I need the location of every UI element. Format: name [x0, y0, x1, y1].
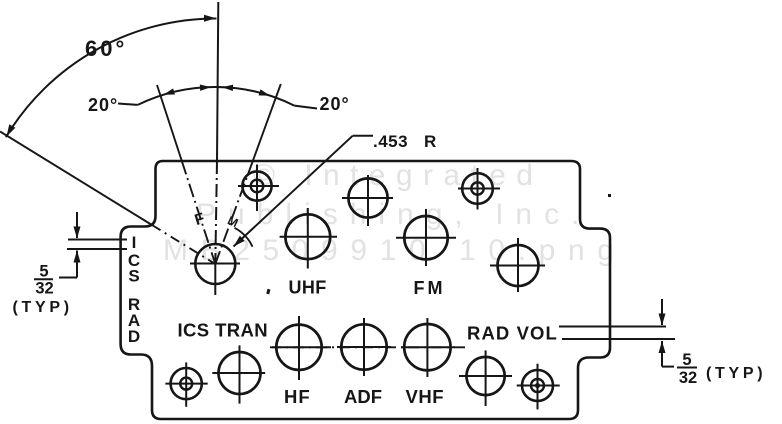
- hole top-right double: [458, 168, 500, 210]
- hole top-left double: [238, 165, 279, 212]
- tick left 20: [118, 104, 138, 105]
- speck near UHF: [266, 289, 270, 295]
- arrow 60 arc top: [204, 15, 216, 22]
- svg-text:32: 32: [679, 369, 697, 387]
- 20 degree arc: [138, 87, 295, 106]
- vertical center line inside panel (dash-dot): [215, 161, 217, 264]
- svg-text:5: 5: [682, 351, 691, 369]
- arrow radius leader: [231, 236, 245, 249]
- label ICS TRAN: [178, 320, 269, 341]
- label 20 deg left: [88, 95, 118, 115]
- left dimension arrows: [59, 212, 81, 278]
- tick right 20: [294, 106, 317, 109]
- label (TYP) right: [706, 365, 766, 382]
- F position line (dash-dot): [157, 85, 215, 264]
- arrow 60 arc lower left: [3, 124, 15, 138]
- hole bottom-left double: [165, 362, 207, 406]
- watermark line 1: [253, 159, 543, 192]
- label VHF: [406, 386, 445, 407]
- 60 degree arc: [6, 18, 217, 137]
- label 60 deg: [85, 36, 127, 61]
- hole RAD VOL: [459, 350, 512, 406]
- hole ADF: [337, 318, 391, 376]
- svg-text:ADF: ADF: [344, 386, 382, 407]
- hub hole ICS RAD knob: [190, 244, 240, 295]
- svg-text:ICS TRAN: ICS TRAN: [178, 320, 269, 341]
- hole VHF: [401, 318, 455, 377]
- 60 degree line solid part: [0, 132, 152, 226]
- hole HF: [272, 316, 331, 380]
- label (TYP) left: [13, 299, 73, 316]
- hole bottom-right double: [517, 364, 560, 410]
- svg-text:M: M: [428, 278, 443, 298]
- label RAD VOL: [467, 323, 558, 344]
- svg-text:32: 32: [35, 280, 53, 298]
- svg-text:S: S: [128, 267, 139, 286]
- svg-text:.453: .453: [373, 132, 408, 151]
- label 5/32 right: [677, 351, 697, 387]
- radius arc near hub: [235, 228, 253, 247]
- svg-text:20°: 20°: [88, 95, 118, 115]
- hole mid upper: [342, 175, 393, 226]
- svg-text:60°: 60°: [85, 36, 127, 61]
- radius leader line .453 R: [234, 136, 374, 247]
- svg-text:R: R: [424, 132, 436, 151]
- bottom row center line (dash-dot): [270, 346, 470, 348]
- svg-text:I: I: [132, 233, 137, 252]
- vertical center line above panel: [217, 2, 218, 161]
- svg-text:VHF: VHF: [406, 386, 445, 407]
- 60 degree line dash part: [152, 225, 215, 264]
- arrow 20 arc at M: [259, 89, 271, 98]
- label ADF: [344, 386, 382, 407]
- arrow 20 arc right of vertical: [222, 84, 233, 91]
- svg-text:5: 5: [39, 263, 48, 281]
- svg-text:(TYP): (TYP): [13, 299, 73, 316]
- arrow 20 arc at F: [163, 88, 175, 97]
- label 5/32 left: [34, 263, 54, 298]
- speck near right edge: [608, 194, 611, 197]
- letter M (tilted): [225, 213, 240, 230]
- svg-text:20°: 20°: [320, 94, 350, 114]
- hole ICS TRAN: [212, 345, 265, 403]
- hole FM: [396, 209, 456, 266]
- svg-text:MB2509910 10.png: MB2509910 10.png: [163, 234, 627, 267]
- hole UHF: [280, 208, 337, 269]
- label ICS RAD vertical: [128, 233, 140, 346]
- svg-text:UHF: UHF: [289, 278, 327, 298]
- label FM: [414, 278, 443, 298]
- left dimension extension lines: [67, 240, 127, 250]
- svg-text:D: D: [128, 327, 140, 346]
- label UHF: [289, 278, 327, 298]
- label HF: [284, 386, 311, 407]
- hole right mid: [490, 238, 545, 292]
- watermark line 2: [196, 198, 591, 231]
- arrow 20 arc left of vertical: [200, 84, 211, 91]
- panel outline: [121, 161, 610, 419]
- right dimension extension lines: [559, 327, 675, 340]
- svg-text:(TYP): (TYP): [706, 365, 766, 382]
- right dimension arrows: [659, 299, 675, 367]
- svg-text:F: F: [414, 278, 425, 298]
- watermark line 3: [163, 234, 627, 267]
- letter F (tilted): [193, 210, 207, 229]
- svg-text:RAD VOL: RAD VOL: [467, 323, 558, 344]
- label .453 R: [373, 132, 436, 151]
- svg-text:HF: HF: [284, 386, 311, 407]
- label 20 deg right: [320, 94, 350, 114]
- M position line (dash-dot): [215, 84, 280, 264]
